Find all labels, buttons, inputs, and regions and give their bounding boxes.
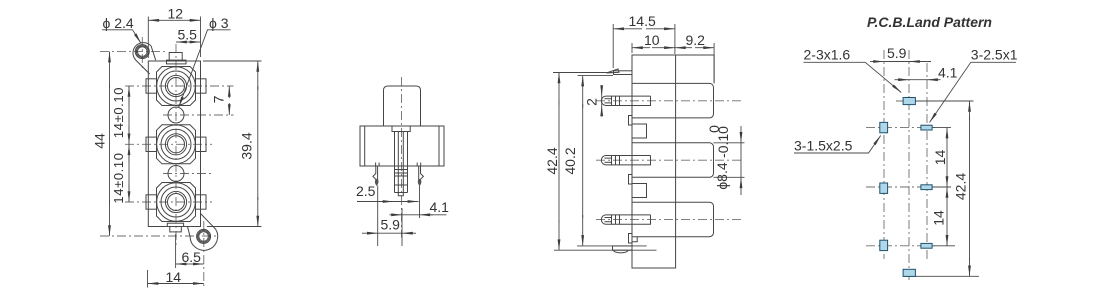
svg-text:5.9: 5.9	[887, 45, 907, 61]
svg-text:ϕ 2.4: ϕ 2.4	[103, 15, 134, 31]
svg-text:14: 14	[931, 210, 947, 226]
svg-text:40.2: 40.2	[562, 147, 578, 174]
svg-text:3-2.5x1: 3-2.5x1	[971, 47, 1018, 63]
svg-text:P.C.B.Land Pattern: P.C.B.Land Pattern	[867, 14, 992, 30]
svg-text:42.4: 42.4	[544, 147, 560, 174]
svg-text:14: 14	[932, 150, 948, 166]
svg-text:14±0.10: 14±0.10	[111, 87, 126, 138]
svg-text:ϕ8.4: ϕ8.4	[714, 162, 730, 190]
svg-text:12: 12	[168, 5, 184, 21]
svg-text:7: 7	[210, 95, 226, 103]
svg-text:44: 44	[92, 133, 108, 149]
svg-text:6.5: 6.5	[182, 249, 202, 265]
svg-text:14: 14	[166, 269, 182, 285]
svg-text:5.5: 5.5	[178, 27, 198, 43]
svg-text:2-3x1.6: 2-3x1.6	[804, 47, 851, 63]
svg-text:4.1: 4.1	[430, 199, 450, 215]
svg-text:9.2: 9.2	[686, 32, 706, 48]
svg-text:-0.10: -0.10	[715, 126, 731, 158]
svg-text:ϕ 3: ϕ 3	[209, 15, 229, 31]
svg-text:4.1: 4.1	[938, 65, 958, 81]
svg-text:10: 10	[644, 32, 660, 48]
svg-text:42.4: 42.4	[953, 173, 969, 200]
svg-text:5.9: 5.9	[381, 217, 401, 233]
svg-text:39.4: 39.4	[239, 132, 255, 159]
svg-text:14.5: 14.5	[629, 13, 656, 29]
svg-text:14±0.10: 14±0.10	[111, 152, 126, 203]
svg-text:2.5: 2.5	[356, 183, 376, 199]
svg-text:2: 2	[584, 98, 600, 106]
svg-text:3-1.5x2.5: 3-1.5x2.5	[794, 138, 853, 154]
